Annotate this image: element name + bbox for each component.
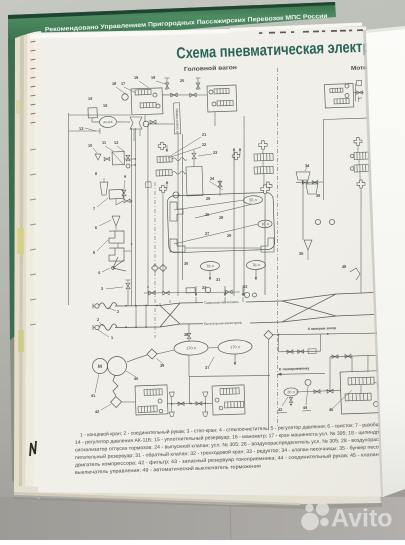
wire item7 to bus	[130, 200, 132, 202]
right unit circle	[215, 398, 219, 402]
valve 23 vertical bowtie	[192, 153, 196, 159]
wire sandbox internals	[360, 385, 363, 394]
vertical feed x268	[265, 340, 271, 430]
column right wire	[357, 145, 360, 152]
leader 2 lower	[99, 322, 103, 326]
magistral crossover X left	[160, 303, 180, 306]
wire right box down	[213, 112, 216, 126]
background crease line	[230, 503, 231, 540]
sandbox hatched cylinder lower	[345, 393, 371, 401]
diamond filter on feed	[264, 330, 273, 339]
svg-text:30: 30	[184, 261, 188, 266]
underline 43 44	[277, 412, 287, 414]
check valve 38	[187, 333, 191, 338]
vertical bowtie above unit	[218, 181, 222, 187]
manometer gauge 16	[122, 94, 129, 101]
column right circle a	[350, 154, 354, 158]
leader 3	[106, 287, 123, 289]
svg-text:78 л: 78 л	[206, 264, 214, 268]
tank row bowtie a	[314, 390, 320, 394]
drop from tank78 left	[209, 271, 212, 280]
sandbox circle upper	[378, 384, 383, 389]
wire oval to funnel	[117, 121, 130, 124]
right verticals to sandbox	[351, 356, 352, 372]
hose squiggle 22a	[172, 157, 187, 161]
column left hatched b	[254, 166, 273, 174]
svg-text:37: 37	[205, 365, 209, 370]
brake magistral right	[336, 293, 374, 295]
bus wire x178	[172, 134, 183, 296]
leader 6	[99, 220, 111, 226]
electro cross right of divider	[232, 152, 240, 160]
valve below tank	[289, 398, 293, 403]
column right cross upper	[354, 137, 362, 145]
valve bowtie after 10	[104, 157, 110, 161]
valve 12 vertical	[126, 155, 130, 161]
leader 43	[282, 397, 289, 406]
electro cross top right of unit	[264, 182, 272, 190]
sander pipe row	[296, 182, 323, 183]
end cock 1 upper symbol	[95, 304, 100, 309]
motor unit circle top	[345, 84, 349, 88]
end cock 1 lower symbol	[95, 325, 100, 330]
sandbox hatched cylinder upper	[348, 377, 374, 385]
tank 78l left	[200, 261, 219, 271]
paper stack left edge strips	[14, 34, 27, 496]
brake magistral left segment	[115, 304, 160, 307]
funnel drop wires	[133, 129, 136, 141]
whistle 6 cone	[112, 216, 120, 226]
svg-text:20 л: 20 л	[287, 390, 295, 394]
suction zigzag from compressor	[112, 375, 118, 396]
motor unit hatched rect lower	[334, 98, 349, 104]
right unit lower hatched cylinder	[225, 401, 244, 408]
gauge 16 circle small	[143, 121, 149, 127]
row2 pipe	[330, 355, 378, 357]
row1 bowtie b	[298, 350, 304, 354]
wire item5 to bus	[124, 250, 132, 253]
right unit hatched cylinder	[220, 388, 239, 395]
drop arrow under right tank	[234, 354, 237, 365]
pressure regulator 14 rect	[88, 108, 97, 118]
Avito watermark logo circles	[301, 502, 329, 530]
air heater rect 22a	[157, 156, 172, 163]
bus diamond b	[159, 264, 166, 271]
feed magistral right	[336, 315, 374, 317]
svg-text:17: 17	[121, 81, 125, 86]
compressor circle 40	[107, 356, 127, 376]
overlay sheet top edge	[366, 26, 405, 33]
wire funnel to strip	[149, 123, 174, 125]
wire item6 to bus	[115, 226, 117, 230]
left unit circle	[158, 399, 162, 403]
sandbox unit box	[340, 370, 393, 414]
row1 pipe	[278, 350, 320, 352]
chamber arrowhead	[376, 332, 380, 335]
sand hose 48 symbol	[350, 268, 360, 280]
bracket right lower	[261, 238, 275, 253]
leader 5	[97, 240, 109, 251]
pressure regulator 5 upper box	[109, 230, 125, 243]
brake unit big box	[167, 192, 275, 253]
left box circle b	[156, 104, 160, 108]
bus wire x163	[160, 193, 167, 292]
check valve row y292	[149, 291, 156, 295]
bus diamond a	[151, 264, 158, 271]
unit wire to tank55	[195, 204, 254, 218]
overlay blank sheet	[366, 26, 405, 497]
column right hatched b	[354, 165, 369, 173]
row2 bowtie b	[345, 354, 351, 358]
feed pipe to main reservoir	[188, 324, 191, 333]
sander row bowtie b	[312, 180, 318, 184]
column right circle b	[350, 167, 354, 171]
brake magistral center	[180, 302, 203, 303]
pressure regulator AK-11B oval 15	[99, 116, 116, 128]
leader 4	[102, 268, 110, 272]
svg-text:78 л: 78 л	[252, 263, 260, 267]
svg-text:170 л: 170 л	[230, 345, 240, 349]
row2 drop x330	[329, 357, 331, 391]
motor car unit box	[324, 84, 353, 108]
row1 stub right	[320, 334, 321, 351]
release box 25	[186, 166, 203, 196]
three-way cock 32 circles	[244, 292, 249, 297]
leader 1	[98, 330, 109, 338]
sheet top edge slivers	[30, 29, 230, 39]
leader lines for 17 18 19	[139, 81, 149, 89]
column right cross lower	[357, 180, 365, 188]
left bus wire x135	[129, 128, 141, 306]
magistral junction dots	[125, 305, 127, 307]
feed magistral center	[180, 323, 203, 324]
motor unit circle mid	[345, 93, 349, 97]
wire left box down	[144, 115, 147, 122]
wire filter42 to unit	[122, 401, 135, 404]
wire tank to tank	[208, 346, 218, 349]
dash-dot coupling line left	[150, 182, 161, 338]
wire left drop from oval	[99, 128, 101, 134]
tank row bowtie b	[327, 389, 333, 393]
valve bowtie on pipe a	[171, 93, 178, 97]
wire row y293	[144, 290, 240, 296]
motor unit right rect	[356, 80, 361, 85]
pipe junction dots	[171, 403, 173, 405]
crane 17 funnel body	[130, 117, 143, 130]
main reservoir 170l left	[174, 340, 208, 355]
leader 41	[94, 374, 99, 393]
leader 13	[85, 128, 96, 132]
brake valve unit left box	[131, 88, 163, 115]
release arrow a	[166, 145, 169, 152]
pipe bowtie b	[196, 402, 202, 406]
wire 9 to bus	[123, 196, 125, 200]
motor unit hatched rect upper	[330, 88, 343, 92]
svg-text:7: 7	[93, 206, 95, 211]
right box circle b	[212, 102, 216, 106]
tank 55l	[243, 195, 262, 204]
leader 34	[305, 165, 308, 171]
drop arrows row	[195, 286, 198, 296]
arrow line x234	[233, 148, 234, 170]
electro valve cross 21	[158, 142, 166, 150]
sand valve 34 symbol	[296, 171, 310, 180]
column right hatched a	[354, 152, 369, 160]
unit connecting pipe	[167, 402, 212, 405]
brake handle unit 11	[112, 152, 124, 165]
magistral taps head car	[159, 303, 161, 306]
gauge circle pantograph	[305, 379, 311, 385]
vertical valve stub a	[166, 78, 169, 90]
dark dash marks along sheet top edge	[259, 32, 262, 34]
sandbox small rects right	[384, 377, 390, 385]
whistle 8 trumpet	[100, 182, 108, 195]
dash-dot coupling line right	[265, 68, 290, 428]
column left wire	[262, 149, 264, 154]
leader 44	[305, 386, 308, 405]
feed drop to units	[188, 376, 190, 403]
motor unit flag	[357, 97, 359, 103]
right unit circle b	[219, 406, 223, 410]
pipe bowtie a	[178, 402, 184, 406]
release arrow c	[239, 148, 241, 155]
overlay sheet shadow	[363, 30, 384, 497]
svg-text:55 л: 55 л	[249, 198, 257, 202]
letter N mark on stack bottom	[30, 441, 36, 456]
row2 bowtie a	[332, 355, 338, 359]
main reservoir 170l right	[218, 339, 252, 354]
hatched cylinder in left box	[135, 89, 151, 95]
magistral inter-connectors	[135, 306, 136, 327]
hatched cylinder in right box	[214, 88, 229, 94]
leader 40	[126, 371, 136, 378]
bracket left lower	[170, 238, 186, 252]
motor M circle 41	[92, 358, 108, 374]
tank 78l right	[246, 260, 265, 270]
pipe between boxes	[162, 93, 207, 96]
speedometer strip rect	[174, 103, 181, 134]
wire 11 to bus	[124, 158, 135, 161]
junction dots	[131, 200, 133, 202]
motor frame top line	[323, 118, 367, 120]
bus wire x148	[142, 124, 155, 306]
vertical valve stub b	[197, 78, 200, 90]
pantograph arrow line	[277, 373, 325, 375]
motor unit right stub	[353, 91, 364, 94]
filter diamond 42	[110, 396, 121, 407]
pressure regulator 5 lower box	[109, 248, 125, 262]
svg-text:10: 10	[88, 143, 92, 148]
leader 45	[332, 390, 352, 408]
left unit circle b	[159, 409, 163, 413]
valve bowtie on pipe b	[190, 93, 197, 97]
hose squiggle 22b	[172, 171, 187, 175]
sandbox circle lower	[373, 402, 378, 407]
leader 37	[209, 357, 215, 366]
left bus wire x131	[125, 128, 137, 306]
leader 7	[97, 198, 109, 207]
stop crane 3	[126, 283, 130, 289]
funnel 36 symbol	[304, 240, 312, 250]
disconnect valve 7 block	[109, 189, 123, 198]
hatched cylinder lower left box	[140, 102, 156, 108]
wire 14 down	[91, 118, 93, 122]
chamber header line	[272, 331, 380, 337]
whistle cone 10	[95, 154, 101, 160]
leader 9	[124, 180, 126, 189]
column left hatched a	[254, 153, 273, 161]
connecting hose 2 upper	[99, 302, 117, 309]
crane unit right box	[207, 85, 237, 112]
frame connector to oval 15	[68, 130, 100, 132]
motor unit bowtie	[357, 91, 363, 95]
right box circle	[209, 90, 213, 94]
frame top connector	[69, 113, 132, 117]
head car frame vertical	[62, 113, 75, 305]
regulator 5 stub	[117, 243, 119, 248]
valve after gauge	[150, 120, 156, 124]
main schematic sheet	[38, 27, 383, 498]
leaders 21-23	[171, 137, 201, 155]
wire 34 down	[301, 180, 305, 240]
ruler tick marks on stack edge	[31, 40, 36, 43]
valve 7 bowtie	[124, 199, 130, 203]
release cups right pair	[205, 396, 206, 412]
yellow spots on stack edge	[17, 228, 24, 254]
paper stack bottom edge	[14, 486, 381, 505]
svg-text:20: 20	[180, 78, 184, 83]
filter diamond 39	[147, 349, 157, 359]
tank 20l	[284, 388, 298, 396]
row1 stub left	[278, 335, 279, 352]
magistral crossover X right	[282, 294, 336, 301]
leader 39	[156, 358, 163, 365]
release arrow b	[166, 181, 168, 188]
gauge 32 circle	[205, 287, 211, 293]
svg-text:27: 27	[205, 231, 209, 236]
junction box on bus	[145, 182, 151, 188]
sander row bowtie a	[302, 181, 308, 185]
left box circle	[153, 93, 157, 97]
valve 9 vertical	[122, 190, 126, 196]
bunker 35 symbol	[306, 184, 318, 195]
chamber header dots	[278, 334, 280, 336]
motor gauge circles mid	[315, 219, 320, 224]
wiper 4 fan blades	[113, 260, 125, 268]
bracket left upper	[169, 202, 183, 222]
feed header line	[189, 374, 270, 379]
svg-text:М: М	[98, 364, 102, 370]
feed magistral left segment	[115, 326, 160, 329]
wire item3 down	[127, 289, 128, 306]
column left cross lower	[261, 185, 270, 194]
shadow under paper stack	[14, 495, 382, 509]
green book spine left edge	[8, 38, 15, 345]
air distributor right box	[212, 385, 245, 415]
leader 2 upper	[108, 307, 116, 311]
electro valve cross lower	[159, 185, 167, 193]
tank bowtie row	[296, 390, 341, 392]
svg-text:АК-11Б: АК-11Б	[103, 120, 112, 124]
leaders 10 11 12	[93, 148, 97, 153]
bus wire x183	[177, 134, 187, 280]
release circle 25	[173, 192, 179, 198]
connecting hose 2 lower	[99, 324, 117, 331]
motor frame vertical	[321, 119, 327, 200]
unit diagonal wire 27	[174, 200, 245, 210]
air heater rect 22b	[156, 169, 172, 176]
row1 reducer rect	[308, 349, 316, 354]
wire compressor to diamond	[127, 355, 148, 362]
row1 bowtie a	[287, 350, 293, 354]
green book cover band	[8, 2, 336, 44]
air distributor left box	[135, 385, 168, 415]
svg-text:170 л: 170 л	[186, 346, 196, 350]
svg-text:Avito: Avito	[331, 505, 393, 533]
hatched cylinder lower right box	[217, 100, 233, 106]
release cups left pair	[171, 396, 172, 412]
reducer 33 rect	[186, 288, 195, 293]
wire diamond to tank	[157, 350, 174, 354]
leader 42	[101, 404, 111, 410]
column left cross upper	[259, 141, 268, 150]
tank 16l	[258, 220, 272, 228]
motor car frame verticals	[238, 116, 251, 296]
left unit lower hatched cylinder	[138, 406, 157, 413]
svg-text:40: 40	[134, 376, 138, 381]
left unit hatched cylinder	[144, 389, 162, 396]
